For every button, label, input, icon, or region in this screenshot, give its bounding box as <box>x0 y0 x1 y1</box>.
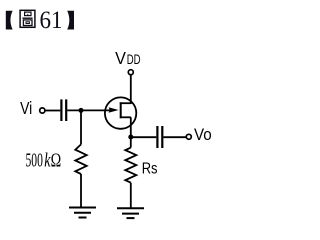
svg-text:Vo: Vo <box>194 125 212 144</box>
title bracket right 】 <box>67 11 74 30</box>
title bracket left 【 <box>6 11 13 30</box>
wire Rs to ground <box>130 183 132 209</box>
terminal VDD <box>128 70 133 75</box>
ground left <box>69 208 96 218</box>
capacitor C1 right plate <box>65 99 67 121</box>
transistor Q1 gate arrow <box>109 107 119 112</box>
resistor R1 500k zigzag <box>75 144 86 174</box>
capacitor C2 right plate <box>161 126 163 148</box>
ground right <box>117 208 144 218</box>
capacitor C1 left plate <box>60 99 62 121</box>
transistor Q1 drain arm <box>120 102 131 104</box>
svg-text:Ω: Ω <box>51 151 62 172</box>
wire Vi to C1 <box>45 110 60 112</box>
wire junction down to R1 <box>80 110 82 144</box>
terminal Vo <box>186 134 191 139</box>
svg-text:61: 61 <box>40 5 63 34</box>
capacitor C2 left plate <box>156 126 158 148</box>
terminal Vi <box>40 108 45 113</box>
transistor Q1 gate bar <box>120 102 122 118</box>
svg-text:DD: DD <box>127 52 141 67</box>
resistor Rs zigzag <box>125 148 136 183</box>
svg-text:500: 500 <box>26 151 43 172</box>
title character 圖 <box>20 10 35 27</box>
wire source down <box>130 117 132 147</box>
wire C1 to gate <box>67 109 111 111</box>
transistor Q1 source arm <box>120 116 131 118</box>
wire source to C2 <box>131 136 157 138</box>
node gate junction dot <box>79 108 84 113</box>
node source junction dot <box>128 135 133 140</box>
wire R1 to ground <box>80 174 82 208</box>
svg-text:Vi: Vi <box>20 98 32 118</box>
svg-text:Rs: Rs <box>142 160 158 177</box>
wire VDD to drain <box>130 75 132 104</box>
wire C2 to Vo <box>163 136 186 138</box>
svg-text:V: V <box>115 48 126 68</box>
transistor Q1 body circle <box>105 97 136 128</box>
